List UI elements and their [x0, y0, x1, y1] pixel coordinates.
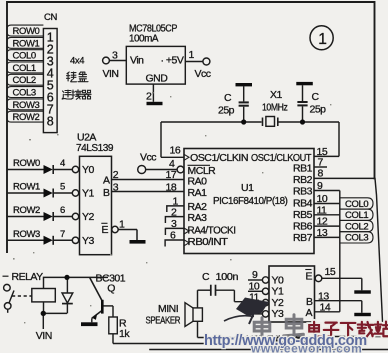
- svg-text:ROW2: ROW2: [13, 205, 40, 216]
- svg-text:C: C: [202, 271, 210, 283]
- svg-text:ROW3: ROW3: [13, 100, 40, 111]
- svg-text:Y2: Y2: [272, 297, 285, 309]
- svg-text:COL0: COL0: [345, 199, 368, 210]
- svg-text:RB0/INT: RB0/INT: [188, 236, 229, 248]
- svg-text:CN: CN: [44, 12, 57, 23]
- svg-text:13: 13: [317, 227, 328, 239]
- svg-text:2: 2: [146, 90, 152, 102]
- svg-text:15: 15: [325, 266, 336, 278]
- svg-text:U1: U1: [241, 182, 254, 194]
- svg-text:6: 6: [170, 230, 176, 242]
- svg-text:RB6: RB6: [293, 221, 313, 233]
- svg-text:RB3: RB3: [293, 186, 313, 198]
- svg-text:COL1: COL1: [345, 210, 368, 221]
- svg-text:7: 7: [318, 156, 324, 168]
- svg-text:25p: 25p: [310, 104, 327, 116]
- svg-text:RELAY: RELAY: [12, 271, 44, 283]
- svg-text:PIC16F8410/P(18): PIC16F8410/P(18): [213, 195, 288, 207]
- svg-text:7: 7: [60, 229, 65, 240]
- svg-text:ROW3: ROW3: [13, 229, 40, 240]
- svg-text:1: 1: [119, 219, 125, 231]
- svg-text:8: 8: [47, 115, 54, 129]
- svg-text:ROW0: ROW0: [13, 26, 40, 37]
- svg-text:ROW0: ROW0: [13, 158, 40, 169]
- svg-text:VIN: VIN: [103, 68, 119, 80]
- svg-text:E: E: [102, 224, 109, 236]
- svg-text:3: 3: [113, 181, 119, 193]
- svg-text:C: C: [224, 92, 232, 104]
- svg-text:25p: 25p: [218, 105, 235, 117]
- svg-text:Vin: Vin: [130, 55, 144, 67]
- svg-text:RB7: RB7: [293, 232, 313, 244]
- svg-text:9: 9: [317, 180, 323, 192]
- svg-text:18: 18: [166, 181, 177, 193]
- svg-text:6: 6: [60, 205, 65, 216]
- svg-text:100n: 100n: [216, 271, 239, 283]
- svg-text:1: 1: [189, 49, 195, 61]
- svg-text:3: 3: [171, 218, 177, 230]
- svg-text:Vcc: Vcc: [195, 68, 211, 80]
- svg-text:16: 16: [170, 145, 181, 157]
- svg-text:X1: X1: [270, 89, 283, 101]
- svg-text:14: 14: [320, 302, 331, 314]
- svg-text:4: 4: [169, 158, 175, 170]
- svg-text:1k: 1k: [119, 328, 130, 340]
- svg-text:VIN: VIN: [36, 330, 52, 342]
- svg-text:2: 2: [113, 169, 119, 181]
- svg-text:2: 2: [171, 206, 177, 218]
- svg-text:COL1: COL1: [13, 63, 36, 74]
- svg-text:3: 3: [112, 49, 118, 61]
- svg-text:Y3: Y3: [272, 308, 285, 320]
- svg-text:74LS139: 74LS139: [76, 142, 114, 154]
- svg-text:RA0: RA0: [188, 175, 208, 187]
- svg-text:10MHz: 10MHz: [262, 102, 288, 114]
- svg-text:ROW2: ROW2: [13, 112, 40, 123]
- svg-text:Y0: Y0: [272, 274, 285, 286]
- svg-text:RB5: RB5: [293, 209, 313, 221]
- svg-text:RB4: RB4: [293, 198, 313, 210]
- svg-text:RB2: RB2: [293, 174, 313, 186]
- svg-text:B: B: [306, 296, 313, 308]
- svg-text:ROW1: ROW1: [13, 38, 40, 49]
- svg-text:MINI: MINI: [158, 303, 178, 315]
- svg-text:OSC1/CLKIN: OSC1/CLKIN: [190, 152, 248, 164]
- svg-text:SPEAKER: SPEAKER: [146, 315, 181, 327]
- svg-text:COL2: COL2: [345, 221, 368, 232]
- svg-text:COL3: COL3: [13, 88, 36, 99]
- svg-text:· +5V: · +5V: [161, 55, 184, 67]
- svg-text:8: 8: [318, 168, 324, 180]
- svg-text:RB1: RB1: [293, 163, 313, 175]
- svg-text:1: 1: [318, 31, 327, 48]
- svg-text:4x4: 4x4: [70, 56, 84, 67]
- svg-text:4: 4: [60, 158, 65, 169]
- svg-text:RA4/TOCKI: RA4/TOCKI: [188, 225, 236, 237]
- svg-text:COL0: COL0: [13, 51, 36, 62]
- svg-text:5: 5: [60, 182, 65, 193]
- svg-text:B: B: [103, 187, 110, 199]
- svg-text:10: 10: [249, 280, 260, 292]
- svg-text:COL3: COL3: [345, 233, 368, 244]
- svg-text:12: 12: [317, 216, 328, 228]
- svg-text:E: E: [306, 270, 313, 282]
- svg-text:Y3: Y3: [82, 235, 95, 247]
- svg-text:A: A: [103, 174, 110, 186]
- svg-text:A: A: [306, 307, 313, 319]
- svg-text:10: 10: [317, 193, 328, 205]
- svg-text:Y0: Y0: [82, 164, 95, 176]
- svg-text:ROW1: ROW1: [13, 182, 40, 193]
- svg-text:www.eeworm.com: www.eeworm.com: [250, 342, 362, 353]
- svg-text:11: 11: [317, 204, 328, 216]
- svg-text:100mA: 100mA: [129, 33, 158, 45]
- svg-text:COL2: COL2: [13, 75, 36, 86]
- svg-text:Q: Q: [107, 283, 115, 295]
- svg-text:Vcc: Vcc: [140, 151, 156, 163]
- svg-text:RA3: RA3: [188, 212, 208, 224]
- svg-text:RA1: RA1: [188, 187, 208, 199]
- svg-text:Y1: Y1: [272, 286, 285, 298]
- svg-text:17: 17: [166, 169, 177, 181]
- svg-text:C: C: [312, 91, 320, 103]
- svg-text:Y1: Y1: [82, 188, 95, 200]
- svg-text:GND: GND: [146, 73, 169, 85]
- svg-text:9: 9: [252, 269, 258, 281]
- svg-text:Y2: Y2: [82, 211, 95, 223]
